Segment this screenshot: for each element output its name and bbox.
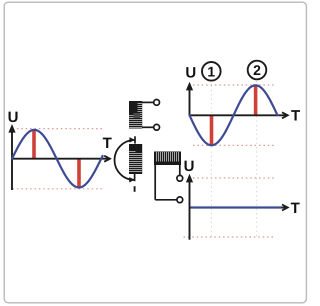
svg-text:U: U: [8, 109, 19, 126]
svg-text:U: U: [185, 65, 196, 82]
svg-text:2: 2: [253, 62, 261, 78]
svg-text:T: T: [103, 135, 112, 152]
svg-text:T: T: [291, 200, 300, 217]
svg-text:1: 1: [207, 63, 215, 79]
svg-text:U: U: [184, 158, 195, 175]
svg-text:T: T: [291, 107, 300, 124]
